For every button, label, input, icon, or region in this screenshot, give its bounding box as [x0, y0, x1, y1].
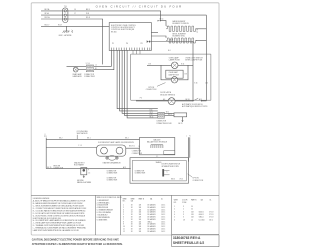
- svg-text:105 C: 105 C: [161, 214, 166, 216]
- wire lamp2 taps: [161, 65, 171, 80]
- wire N supply: [41, 14, 64, 16]
- svg-text:L: L: [186, 136, 187, 138]
- svg-text:DOOR PLUNGER SWITCH: DOOR PLUNGER SWITCH: [162, 164, 181, 166]
- svg-text:BK 1A: BK 1A: [45, 8, 51, 11]
- svg-text:105 C: 105 C: [161, 209, 166, 211]
- svg-text:1.3: 1.3: [88, 172, 90, 174]
- svg-text:103: 103: [139, 231, 142, 233]
- svg-text:57 CO: 57 CO: [209, 211, 214, 213]
- svg-text:PART N: PART N: [191, 199, 196, 202]
- svg-text:CONNECTEUR: CONNECTEUR: [135, 172, 147, 174]
- svg-text:BK 2: BK 2: [125, 138, 128, 140]
- wire lower h2: [46, 147, 96, 149]
- svg-text:105 C: 105 C: [161, 231, 166, 233]
- svg-text:105 C: 105 C: [161, 226, 166, 228]
- svg-text:105 C: 105 C: [161, 205, 166, 207]
- svg-text:F: F: [88, 170, 89, 172]
- svg-text:COOLING FAN: COOLING FAN: [77, 130, 89, 133]
- wires connector to plug: [165, 112, 175, 114]
- svg-text:103: 103: [139, 217, 142, 219]
- svg-text:16: 16: [74, 9, 76, 11]
- svg-text:WIRE: WIRE: [123, 198, 127, 200]
- svg-text:3: 3: [183, 211, 184, 213]
- svg-text:OVEN CIRCUIT // CIRCUIT DU FOU: OVEN CIRCUIT // CIRCUIT DU FOUR: [96, 4, 183, 8]
- wire lamp feeds: [147, 64, 171, 66]
- svg-text:BK 1: BK 1: [87, 138, 90, 140]
- wire lamp to ballast: [126, 147, 140, 149]
- svg-text:W 13: W 13: [180, 179, 183, 181]
- svg-text:CONNECTEUR FOUR: CONNECTEUR FOUR: [156, 123, 172, 125]
- ground under plug: [83, 175, 85, 176]
- svg-text:WIRE: WIRE: [174, 200, 178, 202]
- wire L2 supply: [41, 18, 64, 20]
- svg-text:1 0: 1 0: [138, 146, 140, 148]
- svg-text:NO.: NO.: [123, 200, 126, 202]
- svg-text:UL: UL: [210, 200, 212, 202]
- svg-text:WIRE COLOR CODE/COUL. DE FIL: WIRE COLOR CODE/COUL. DE FIL: [97, 197, 122, 199]
- svg-text:103: 103: [191, 211, 194, 213]
- svg-text:104: 104: [139, 212, 142, 214]
- svg-text:4: 4: [123, 212, 124, 214]
- svg-text:57 CO: 57 CO: [209, 214, 214, 216]
- svg-text:A 1: A 1: [168, 49, 170, 52]
- svg-text:BK 15: BK 15: [47, 167, 51, 169]
- svg-text:GROUND: GROUND: [77, 180, 85, 182]
- svg-text:STARTER DEMARREUR: STARTER DEMARREUR: [103, 162, 122, 165]
- wire L1 supply: [41, 10, 64, 12]
- svg-text:RD 17: RD 17: [45, 24, 50, 26]
- svg-text:7: 7: [123, 219, 124, 221]
- svg-text:W 15: W 15: [150, 112, 153, 114]
- svg-text:318046763 REV:A: 318046763 REV:A: [173, 236, 201, 240]
- svg-text:10: 10: [191, 206, 193, 208]
- svg-text:CONNECTOR: CONNECTOR: [84, 74, 95, 76]
- svg-text:14: 14: [131, 212, 133, 214]
- svg-text:18: 18: [131, 219, 133, 221]
- svg-text:103: 103: [191, 214, 194, 216]
- svg-text:105 C: 105 C: [161, 221, 166, 223]
- svg-text:103: 103: [139, 226, 142, 228]
- svg-text:105 C: 105 C: [161, 219, 166, 221]
- svg-text:18: 18: [131, 231, 133, 233]
- wire broil to bus: [196, 40, 206, 42]
- svg-text:UL: UL: [161, 198, 163, 200]
- svg-text:14: 14: [191, 219, 193, 221]
- plug loop box: [174, 113, 187, 117]
- wire latch line: [175, 100, 193, 102]
- svg-text:BK 16: BK 16: [186, 99, 190, 101]
- svg-text:3: 3: [183, 206, 184, 208]
- wire bundle P5: [117, 50, 158, 108]
- svg-text:WIRE: WIRE: [131, 198, 135, 200]
- svg-text:RD 1A: RD 1A: [45, 16, 51, 19]
- starter: [108, 156, 116, 161]
- svg-text:2: 2: [174, 209, 175, 211]
- svg-text:57 CO: 57 CO: [209, 217, 214, 219]
- svg-text:B 15: B 15: [150, 110, 153, 112]
- console enclosure box: [131, 54, 211, 100]
- svg-text:18: 18: [131, 226, 133, 228]
- svg-text:103: 103: [139, 205, 142, 207]
- svg-text:600V-1: 600V-1: [199, 211, 204, 213]
- svg-text:105 C: 105 C: [161, 217, 166, 219]
- svg-text:12: 12: [123, 231, 125, 233]
- svg-text:105 C: 105 C: [209, 219, 214, 221]
- pins into enclosure: [133, 50, 140, 54]
- svg-text:18: 18: [131, 228, 133, 230]
- svg-text:CONNECTOR: CONNECTOR: [107, 170, 118, 172]
- svg-text:FLUORESCENT LAMP LAMPE FLUORE: FLUORESCENT LAMP LAMPE FLUORESCENTE: [98, 141, 134, 144]
- svg-text:1 15: 1 15: [205, 83, 208, 85]
- svg-text:18: 18: [131, 224, 133, 226]
- svg-text:W 17: W 17: [58, 24, 62, 26]
- svg-text:105 C: 105 C: [161, 228, 166, 230]
- svg-text:S 16: S 16: [194, 83, 197, 85]
- svg-text:OPTION: OPTION: [148, 87, 155, 89]
- wire N to right bus: [67, 14, 207, 16]
- svg-text:18: 18: [131, 205, 133, 207]
- svg-text:ELEMENT CUISSON: ELEMENT CUISSON: [173, 23, 190, 25]
- svg-text:SEALED SPLIT: SEALED SPLIT: [74, 161, 85, 164]
- svg-text:LEGEND/LEGENDE: LEGEND/LEGENDE: [33, 198, 50, 200]
- svg-text:B 8: B 8: [149, 63, 151, 65]
- title block lines: [172, 234, 219, 236]
- svg-text:CONNECTEUR: CONNECTEUR: [132, 153, 142, 155]
- svg-text:OVEN LAMP: OVEN LAMP: [169, 71, 178, 74]
- latch switch: [192, 100, 193, 101]
- svg-text:18: 18: [131, 207, 133, 209]
- svg-text:3: 3: [183, 217, 184, 219]
- svg-text:OPTION: OPTION: [193, 178, 200, 180]
- svg-text:104: 104: [139, 209, 142, 211]
- svg-text:103: 103: [139, 228, 142, 230]
- svg-text:NO.: NO.: [174, 202, 177, 204]
- svg-text:BK 13: BK 13: [171, 179, 175, 181]
- wire lower left vertical: [45, 138, 47, 169]
- bottom band top line: [31, 194, 219, 196]
- dot plug component: [81, 168, 87, 175]
- svg-text:CODE: CODE: [182, 202, 186, 204]
- svg-text:1: 1: [123, 205, 124, 207]
- svg-text:GND 1 LA TERRE: GND 1 LA TERRE: [59, 34, 72, 37]
- svg-text:5: 5: [174, 217, 175, 219]
- svg-text:BK 15: BK 15: [168, 114, 172, 116]
- EOC pins: [111, 48, 150, 51]
- svg-text:CONNECTOR: CONNECTOR: [132, 150, 141, 152]
- svg-text:PART N: PART N: [139, 197, 144, 200]
- svg-text:R 15: R 15: [150, 114, 153, 116]
- rear lamp: [73, 67, 78, 72]
- svg-text:8: 8: [123, 221, 124, 223]
- connector bowtie EOC corner: [147, 40, 150, 43]
- wire EOC to broil element: [151, 31, 158, 33]
- svg-text:RD 8: RD 8: [86, 17, 90, 19]
- svg-text:INTER. LAMPE FOUR: INTER. LAMPE FOUR: [185, 58, 203, 61]
- svg-text:B 16: B 16: [181, 64, 184, 66]
- oven lamp 2 (option): [166, 70, 183, 78]
- ground chassis symbol: [66, 26, 68, 31]
- wire lower h1: [46, 138, 139, 140]
- svg-text:17: 17: [74, 13, 76, 15]
- svg-text:N 1: N 1: [95, 68, 97, 70]
- svg-text:18: 18: [183, 219, 185, 221]
- svg-text:BROILER: BROILER: [53, 165, 61, 167]
- svg-text:W 14: W 14: [160, 19, 164, 21]
- svg-text:2: 2: [138, 148, 139, 150]
- svg-text:B 8: B 8: [185, 74, 187, 76]
- svg-text:3: 3: [123, 209, 124, 211]
- svg-text:105 C: 105 C: [161, 224, 166, 226]
- svg-text:SEALED: SEALED: [156, 161, 163, 164]
- svg-text:CONVECTION: CONVECTION: [146, 89, 157, 91]
- svg-text:1: 1: [174, 206, 175, 208]
- svg-text:GA: GA: [150, 197, 152, 200]
- svg-text:10: 10: [123, 226, 125, 228]
- svg-text:A 8: A 8: [163, 98, 165, 101]
- svg-text:1. GREEN/VERT: 1. GREEN/VERT: [97, 200, 109, 202]
- electronic oven control EOC: [109, 23, 151, 51]
- svg-text:18: 18: [131, 221, 133, 223]
- svg-text:9: 9: [123, 224, 124, 226]
- svg-text:SHEET/FEUILLE:1/2: SHEET/FEUILLE:1/2: [173, 241, 204, 245]
- svg-text:103: 103: [139, 207, 142, 209]
- ballast: [140, 138, 175, 155]
- svg-text:105 C: 105 C: [161, 212, 166, 214]
- plunger component: [162, 169, 164, 176]
- svg-text:ES 300: ES 300: [111, 31, 117, 33]
- svg-text:ATTENTION:COUPEZ L’ALIMENTATIO: ATTENTION:COUPEZ L’ALIMENTATION AVANT D’…: [32, 243, 123, 246]
- wires EOC to rear lamp: [94, 50, 112, 66]
- svg-text:A 13: A 13: [123, 166, 126, 169]
- svg-text:REAR LAMP: REAR LAMP: [73, 73, 82, 76]
- svg-text:4: 4: [174, 214, 175, 216]
- svg-text:INTERRUPTEUR PORTE: INTERRUPTEUR PORTE: [162, 166, 179, 168]
- wire plug to ground: [182, 117, 184, 121]
- svg-text:3: 3: [183, 214, 184, 216]
- svg-text:CONNECTEUR: CONNECTEUR: [107, 172, 119, 174]
- svg-text:11: 11: [123, 228, 125, 230]
- connector grid: [158, 112, 165, 118]
- wire latch left: [136, 100, 168, 102]
- lower assembly box: [130, 158, 189, 184]
- svg-text:( ): ( ): [44, 134, 46, 136]
- wire lamp1 to switch: [178, 64, 193, 66]
- svg-text:BK 8: BK 8: [86, 9, 90, 11]
- svg-text:18: 18: [131, 217, 133, 219]
- wire bake to bus: [196, 28, 206, 30]
- svg-text:103: 103: [191, 217, 194, 219]
- svg-text:BK 15: BK 15: [178, 123, 182, 125]
- svg-text:CONNECTEUR: CONNECTEUR: [84, 76, 96, 78]
- svg-text:CONNECTEUR: CONNECTEUR: [107, 180, 119, 182]
- svg-text:5: 5: [123, 214, 124, 216]
- wire latch feed: [150, 42, 193, 101]
- svg-text:2: 2: [183, 209, 184, 211]
- svg-text:L 1: L 1: [95, 65, 97, 67]
- svg-text:LAMPE FOUR: LAMPE FOUR: [169, 58, 181, 61]
- svg-text:105 C: 105 C: [161, 207, 166, 209]
- svg-text:8. BROWN/BRUN: 8. BROWN/BRUN: [97, 217, 111, 219]
- ground triangle: [181, 120, 183, 122]
- svg-text:3: 3: [174, 211, 175, 213]
- svg-text:AUTOMATIC DOOR LATCH: AUTOMATIC DOOR LATCH: [182, 103, 203, 106]
- svg-text:18: 18: [131, 214, 133, 216]
- svg-text:105: 105: [139, 219, 142, 221]
- wire L1 to bake element: [67, 11, 166, 26]
- svg-text:COLOR: COLOR: [182, 200, 188, 202]
- svg-text:7. BLUE/BLEU: 7. BLUE/BLEU: [97, 214, 108, 216]
- svg-text:UL 1050: UL 1050: [199, 219, 205, 221]
- ballast inner box: [164, 151, 175, 155]
- svg-text:CONNECTOR: CONNECTOR: [53, 168, 64, 170]
- svg-text:BK 15: BK 15: [150, 117, 154, 119]
- svg-text:4. RED/ROUGE: 4. RED/ROUGE: [97, 207, 109, 209]
- svg-text:103: 103: [139, 214, 142, 216]
- svg-text:P8: P8: [141, 43, 143, 45]
- svg-text:P1: P1: [112, 43, 114, 45]
- svg-text:14: 14: [131, 209, 133, 211]
- svg-text:105: 105: [139, 221, 142, 223]
- svg-text:P 5: P 5: [140, 97, 142, 99]
- right bus vertical: [205, 15, 207, 101]
- svg-text:18 GA/600V: 18 GA/600V: [147, 204, 155, 207]
- svg-text:1 1 5: 1 1 5: [78, 145, 82, 147]
- svg-text:C: C: [167, 172, 168, 174]
- svg-text:W 1A: W 1A: [45, 12, 50, 15]
- svg-text:GND-1: GND-1: [199, 217, 204, 219]
- svg-text:6: 6: [174, 219, 175, 221]
- svg-text:6: 6: [123, 217, 124, 219]
- svg-text:BK 2 W 2: BK 2 W 2: [129, 146, 135, 148]
- svg-text:CONNECTOR: CONNECTOR: [156, 121, 167, 123]
- svg-text:P6: P6: [126, 43, 128, 45]
- svg-text:GA: GA: [201, 199, 203, 202]
- connector bowtie on L1 drop: [158, 20, 161, 22]
- svg-text:GND-1: GND-1: [147, 221, 152, 223]
- svg-text:2: 2: [123, 207, 124, 209]
- svg-text:10: 10: [191, 209, 193, 211]
- svg-text:LAMP SWITCH/INTERRUPTEUR DE LA: LAMP SWITCH/INTERRUPTEUR DE LA LAMPE DU …: [33, 229, 80, 232]
- svg-text:CAUTION, DISCONNECT ELECTRIC P: CAUTION, DISCONNECT ELECTRIC POWER BEFOR…: [32, 239, 120, 242]
- svg-text:103: 103: [139, 224, 142, 226]
- svg-text:BALLAST: BALLAST: [154, 138, 161, 141]
- svg-text:CONNECTOR: CONNECTOR: [107, 178, 118, 180]
- svg-text:CONVECTION: CONVECTION: [193, 180, 204, 182]
- wire lower h3: [46, 168, 131, 170]
- wire RD17 to EOC: [41, 25, 109, 27]
- wire L2 down: [67, 19, 103, 64]
- border frame: [31, 3, 219, 235]
- svg-text:1 2 3 4: 1 2 3 4: [86, 63, 90, 65]
- svg-text:W 8: W 8: [86, 13, 89, 15]
- svg-text:ELEMENT GRIL: ELEMENT GRIL: [173, 36, 185, 38]
- svg-text:600V-1: 600V-1: [199, 214, 204, 216]
- svg-text:CONNECTOR: CONNECTOR: [135, 170, 146, 172]
- svg-text:BK 2: BK 2: [59, 138, 62, 140]
- bottom band dividers: [94, 195, 96, 235]
- svg-text:W 15: W 15: [166, 112, 169, 114]
- svg-text:MODULE VERROU: MODULE VERROU: [160, 94, 176, 96]
